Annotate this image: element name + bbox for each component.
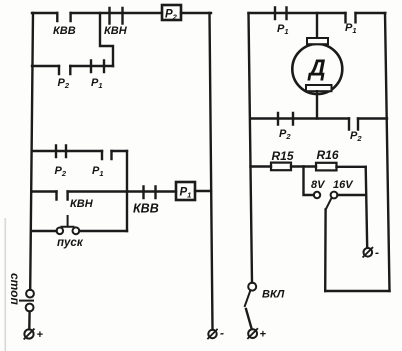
wire: right section row2 right segment [358,117,387,119]
contact P2 row2 left (ticks) [278,113,293,125]
contact P1 top right (stubs) [346,13,356,22]
svg-text:16V: 16V [333,179,354,191]
switch стоп [26,290,34,298]
terminal Ø+ (left section bottom) [24,329,33,338]
svg-text:КВН: КВН [104,25,128,37]
selector blade [326,198,332,209]
wire: row3 left segment [251,165,272,167]
push button пуск [57,228,64,235]
relay coil P1 box [176,182,195,200]
svg-text:R15: R15 [272,149,294,163]
contact КВН (ticks) [110,8,123,24]
svg-text:КВН: КВН [70,198,94,210]
svg-text:пуск: пуск [57,237,84,249]
switch ВКЛ [248,283,256,291]
svg-text:-: - [375,246,379,260]
contact P2 row3 (ticks) [56,146,66,158]
wire: vertical junction column [126,151,128,231]
wire: стоп to terminal [28,312,31,330]
resistor R16 [316,163,337,171]
wire: row3 between resistors [291,165,316,167]
wire: right section top left segment [249,12,346,14]
terminal Ø- (right section) [364,248,373,257]
wire: 16V to vertical [338,194,366,196]
wire: row2 right segment [70,65,113,67]
wire: row3 right segment to corner [337,166,366,168]
wire: row1 right segment [181,12,211,14]
svg-text:КВВ: КВВ [53,25,76,37]
faint scan artifact line on left edge [5,218,7,351]
wire: right section bottom [325,290,389,292]
wire: right section top right segment [356,12,386,14]
contact КВВ (normally open, stubs) [57,13,70,21]
terminal Ø- (left section bottom) [208,330,216,338]
wire: row5 left segment [32,230,57,232]
wire: row2 left segment [32,65,59,67]
svg-text:+: + [37,329,44,341]
svg-text:стоп: стоп [8,273,22,306]
wire: branch from row1 down to row2 [100,13,113,66]
wire: vertical to Ø- tap [366,167,368,248]
wire: row1 left segment [32,12,57,14]
wire: right section row2 left segment [250,117,349,119]
contact P1 top left (ticks) [275,8,287,20]
wire: right section right rail [385,13,390,291]
contact P1 row3 (stubs) [102,151,112,159]
wire: right section left rail [249,13,253,283]
wire: ВКЛ to terminal [246,309,252,329]
contact P2 row2 (stubs) [59,66,70,74]
wire: motor bottom lead [316,91,318,118]
svg-text:ВКЛ: ВКЛ [262,289,285,301]
contact circle 8V [314,192,320,198]
svg-text:-: - [220,326,224,340]
wire: 8V tap lead [304,167,314,196]
svg-text:Д: Д [307,55,326,81]
motor Д [292,44,342,94]
wire: row4 right segment [195,190,211,192]
wire: row3 left segment [32,150,102,152]
wire: selector column down [324,210,327,292]
contact circle 16V [331,192,338,199]
svg-text:КВВ: КВВ [133,202,159,216]
wire: row4 middle segment [68,190,176,192]
wire: row3 right segment [112,150,128,152]
wire: right rail of left section [210,13,213,330]
relay coil P2 box [162,5,181,20]
contact КВВ row4 (ticks) [144,187,156,199]
contact КВН row4 (stubs) [57,192,68,200]
svg-text:+: + [260,329,267,341]
wire: row4 left segment [32,190,57,192]
wire: motor top lead [316,13,318,39]
wire: row5 right segment [79,230,127,232]
resistor R15 [271,163,291,171]
wire: left rail [30,13,33,290]
wire: row1 middle segment [71,12,162,14]
svg-text:8V: 8V [311,179,326,191]
svg-text:R16: R16 [317,148,339,162]
terminal Ø+ (right section bottom) [248,329,257,338]
contact P2 row2 right (stubs) [349,119,358,130]
contact P1 row2 (ticks) [91,61,104,73]
